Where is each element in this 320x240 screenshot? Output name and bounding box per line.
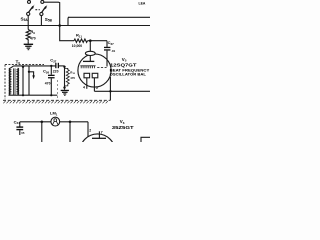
T6 core lines (12, 68, 14, 94)
T6 shield box dashed right edge (faint) (56, 80, 58, 99)
V6 internal bar (92, 137, 106, 139)
linkage dashes between S5A and S5B (35, 9, 37, 11)
node dot (23,95.2) (22, 94, 24, 96)
wire: rail right of lamp (60, 121, 88, 123)
wire: main horizontal rail y=25.5 from left edge to right edge (0, 25, 150, 27)
corner element bottom right (141, 137, 150, 142)
node: junction of pin wire and y=91.3 wire (109, 90, 111, 92)
resistor R9 zigzag (26, 30, 30, 42)
svg-text:12SQ7GT: 12SQ7GT (110, 63, 137, 68)
svg-text:05: 05 (21, 131, 25, 135)
capacitor C26 (50, 66, 52, 75)
svg-text:35Z5GT: 35Z5GT (112, 125, 134, 130)
wire: R11 to C37 corner (88, 40, 108, 42)
T6 winding A bottom lead (9, 94, 11, 97)
wire: vertical x=64.5 from C27 node down (64, 66, 66, 88)
svg-text:7: 7 (101, 131, 103, 135)
node dot (64.5,87.6) (63, 86, 65, 88)
T6 shield box dashed left edge (4, 65, 6, 100)
svg-text:.01: .01 (111, 49, 116, 53)
wire: upper horizontal rail y=17.3 to right edge (68, 16, 150, 18)
switch S5B lower contact (40, 12, 43, 15)
node dot (64.5,66.8) (63, 66, 65, 68)
V5 grid dashes right (97, 67, 106, 69)
V6 internal lead up (98, 131, 100, 138)
svg-text:470: 470 (45, 81, 51, 85)
T6 shield box dashed top edge (5, 64, 44, 66)
wire: corner down to V6 (87, 122, 89, 137)
switch S5A upper contact (28, 0, 31, 3)
V5 pin 4 lead (86, 78, 88, 89)
svg-text:T6: T6 (16, 59, 21, 65)
svg-text:S5B: S5B (45, 17, 53, 23)
ground below (64.5) (64, 88, 66, 90)
tuning arrow of T6 (29, 72, 34, 77)
wire: S5A lower contact down through rail to R9 (27, 16, 29, 30)
node dot C26 top (50, 65, 52, 67)
T6 winding B (right coil) (17, 68, 20, 94)
resistor R11 zigzag (74, 39, 88, 42)
svg-text:C37: C37 (108, 40, 114, 46)
wire: from junction down then right to R11 (60, 26, 74, 41)
tube V5 envelope (78, 54, 111, 87)
V5 right pin wire down to chassis (109, 77, 111, 101)
capacitor C27 (55, 63, 59, 68)
node dot (51.3,95.2) (50, 94, 52, 96)
node dot (70,121.8) (69, 121, 72, 124)
T6 winding B bottom lead (17, 94, 19, 97)
svg-text:LM1: LM1 (50, 111, 58, 117)
svg-text:OSCILLATOR BAL: OSCILLATOR BAL (110, 72, 147, 76)
wire: top line from S5B contact going right then down to rail (44, 2, 60, 25)
wire: bottom circuit line inside box (9, 94, 58, 96)
svg-text:220: 220 (53, 69, 59, 73)
node: junction dot at (59.7,25.5) (58, 24, 61, 27)
wire: pin5 lead right to edge (94, 90, 150, 92)
resistor R (grid leak) beside x=64.5 (65, 68, 70, 86)
T6 winding A (left coil) (8, 68, 11, 94)
switch S5A lower contact (27, 12, 30, 15)
wire: vertical from dot to bottom edge (41, 122, 43, 142)
switch S5B blade (42, 6, 46, 12)
wire: top circuit line inside box to C27 (14, 65, 56, 67)
V5 diode plate box right (92, 73, 98, 78)
wire: inner vertical x=23 (22, 66, 24, 95)
svg-text:5: 5 (96, 86, 98, 90)
svg-text:C27: C27 (50, 58, 56, 64)
svg-text:R11: R11 (76, 33, 82, 39)
svg-text:C26: C26 (43, 69, 49, 75)
svg-text:470: 470 (30, 37, 36, 41)
wire: bottom rail y=121.8 (20, 121, 51, 123)
svg-text:C34: C34 (14, 119, 20, 125)
svg-text:470: 470 (70, 76, 75, 80)
node dot (41.8,121.8) (41, 121, 44, 124)
tube V6 envelope (partial) (80, 134, 115, 169)
chassis dashed line with hatching (3, 99, 110, 101)
switch S5B upper contact (41, 0, 44, 3)
wire: vertical riser joining the two rails at x=68 (68, 17, 69, 25)
V5 plate bar (83, 60, 94, 62)
svg-text:4: 4 (83, 85, 85, 89)
svg-text:2: 2 (89, 129, 91, 133)
capacitor C37 (106, 41, 108, 47)
T6 winding A top lead (10, 66, 13, 68)
svg-text:S5A: S5A (21, 16, 29, 22)
V5 plate lead from cap (89, 56, 91, 62)
ground below R9 (24, 44, 33, 51)
node dot (23,66.8) (22, 66, 24, 68)
V5 pin 5 lead (93, 78, 95, 92)
svg-text:10,000: 10,000 (72, 44, 82, 48)
svg-text:R12: R12 (70, 71, 75, 76)
wire: vertical x=70 to bottom edge (69, 122, 71, 142)
V5 grid comb (80, 66, 95, 69)
node: junction dot at R11 output (89, 39, 92, 42)
V5 diode plate box left (84, 73, 90, 78)
wire: S5B lower contact down to rail (40, 16, 42, 26)
wire: inner vertical x=29 (28, 66, 30, 95)
svg-text:LEA: LEA (139, 1, 146, 5)
svg-text:R9: R9 (30, 29, 35, 35)
node dot (29,71.8) (28, 71, 30, 73)
V5 top cap (85, 51, 95, 55)
wire: drop from junction to V5 top cap (89, 41, 91, 52)
switch S5A blade (open, arrow up-right) (29, 6, 33, 12)
